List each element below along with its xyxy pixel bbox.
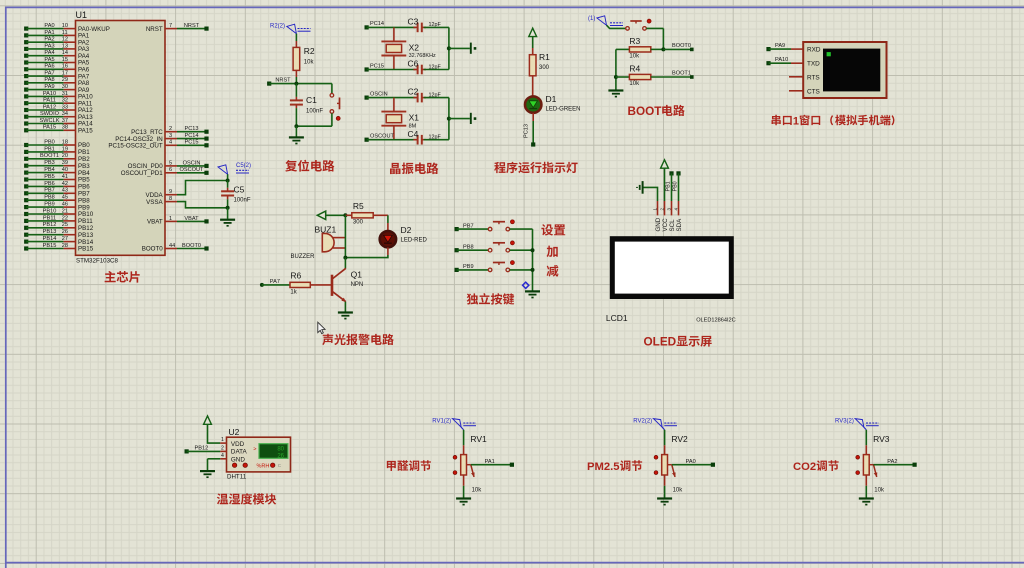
- svg-text:X1: X1: [409, 113, 420, 123]
- crystal X1 8M: [381, 98, 419, 140]
- svg-text:10k: 10k: [874, 488, 885, 494]
- label 温湿度模块: [217, 493, 276, 504]
- svg-text:2: 2: [169, 126, 172, 132]
- svg-text:PB11: PB11: [43, 215, 56, 221]
- potentiometer RV1 10k: [461, 430, 487, 494]
- wire PC15 to C6: [367, 69, 416, 71]
- net PB8 terminal + wire: [455, 244, 489, 252]
- svg-text:8: 8: [169, 196, 172, 202]
- U1 label 主芯片: [105, 271, 140, 283]
- U1 right pin BOOT0 (44) net BOOT0: [142, 243, 209, 253]
- virtual terminal body: [803, 42, 886, 98]
- U1 left pin PB2 (20) wire net BOOT1: [24, 153, 90, 163]
- svg-text:R3: R3: [629, 36, 640, 46]
- svg-text:PA0: PA0: [686, 459, 696, 465]
- label OLED显示屏: [644, 336, 712, 349]
- svg-text:PA8: PA8: [44, 77, 54, 83]
- keys bus rail: [531, 229, 535, 290]
- wire button bottom to C1 bottom: [294, 124, 332, 128]
- power flag RV3(2): [835, 419, 879, 430]
- wire emitter to ground: [344, 302, 346, 312]
- svg-text:BUZZER: BUZZER: [291, 254, 316, 260]
- capacitor C1 100nF: [290, 84, 323, 127]
- junction NRST/R2/C1: [294, 82, 298, 86]
- U1 left pin PB5 (41) wire net PB5: [24, 174, 90, 184]
- svg-text:GND: GND: [655, 217, 662, 231]
- U1 right pin NRST (7) net NRST: [146, 23, 209, 33]
- svg-text:PB9: PB9: [463, 264, 474, 270]
- svg-text:LED-RED: LED-RED: [401, 238, 428, 244]
- svg-text:PA0: PA0: [44, 23, 54, 29]
- svg-text:10: 10: [62, 23, 68, 29]
- svg-text:Q1: Q1: [351, 270, 363, 280]
- svg-text:PA10: PA10: [43, 91, 56, 97]
- svg-text:3: 3: [169, 133, 172, 139]
- svg-text:(1): (1): [588, 16, 595, 22]
- svg-text:41: 41: [62, 174, 68, 180]
- svg-text:21: 21: [62, 208, 68, 214]
- svg-text:PA10: PA10: [775, 57, 788, 63]
- junction BOOT0: [661, 47, 665, 51]
- U1 left pin PA13 (34) wire net SWDIO: [24, 111, 93, 121]
- svg-text:OSCOUT: OSCOUT: [370, 134, 395, 140]
- svg-text:12: 12: [62, 37, 68, 43]
- capacitor C5 100nF: [221, 181, 251, 208]
- RTS pin stub: [789, 76, 803, 78]
- svg-text:300: 300: [539, 65, 550, 71]
- svg-text:OSCIN: OSCIN: [370, 91, 388, 97]
- terminal screen: [823, 49, 880, 92]
- push button 减: [488, 261, 514, 272]
- wire RV2 to ground: [664, 486, 666, 498]
- svg-text:PA2: PA2: [887, 459, 897, 465]
- wire C5 bottom to ground: [227, 208, 229, 219]
- net PA1 wire from RV1 wiper: [471, 459, 514, 467]
- U1 left pin PB3 (39) wire net PB3: [24, 160, 90, 170]
- net PB0 terminal + SDA wire: [673, 171, 681, 201]
- svg-text:39: 39: [62, 160, 68, 166]
- net BOOT0 wire + terminal: [663, 43, 693, 51]
- svg-text:BOOT1: BOOT1: [672, 70, 691, 76]
- svg-text:2: 2: [221, 446, 224, 452]
- svg-text:NRST: NRST: [275, 77, 291, 83]
- svg-text:PB3: PB3: [44, 160, 55, 166]
- svg-text:PB14: PB14: [43, 236, 57, 242]
- potentiometer RV2 10k: [662, 430, 688, 494]
- U1 left pin PA8 (29) wire net PA8: [24, 77, 90, 87]
- svg-text:38: 38: [62, 125, 68, 131]
- U1 left pin PA6 (16) wire net PA6: [24, 64, 90, 74]
- svg-text:PC15: PC15: [185, 140, 199, 146]
- ground (RV2): [657, 499, 672, 505]
- svg-text:STM32F103C8: STM32F103C8: [76, 258, 119, 265]
- svg-text:1: 1: [793, 115, 799, 127]
- svg-text:PB15: PB15: [43, 243, 57, 249]
- wire GND down: [207, 459, 209, 470]
- U1 left pin PB1 (19) wire net PB1: [24, 146, 90, 156]
- U1 left pin PB7 (43) wire net PB7: [24, 188, 90, 198]
- svg-text:37: 37: [62, 118, 68, 124]
- node at C5 top: [226, 179, 230, 183]
- svg-text:PB5: PB5: [44, 174, 55, 180]
- wire PC14 to C3/X2: [367, 26, 416, 28]
- svg-text:PB7: PB7: [463, 223, 474, 229]
- power flag (1): [588, 16, 623, 26]
- wire button to BOOT0 node: [646, 28, 663, 49]
- svg-text:PA3: PA3: [44, 43, 54, 49]
- svg-text:LED-GREEN: LED-GREEN: [546, 107, 581, 113]
- U1 left pin PA10 (31) wire net PA10: [24, 91, 93, 101]
- svg-text:NRST: NRST: [184, 23, 200, 29]
- net OSCIN terminal: [365, 91, 388, 99]
- label OLED128642C: [696, 318, 736, 324]
- svg-text:U2: U2: [229, 427, 240, 437]
- svg-text:10k: 10k: [629, 81, 640, 87]
- reset push button: [330, 84, 340, 127]
- svg-text:%RH: %RH: [257, 463, 270, 469]
- U1 left pin PB0 (18) wire net PB0: [24, 139, 90, 149]
- U2 pin GND (4): [208, 453, 246, 464]
- svg-text:3: 3: [666, 208, 671, 211]
- wire GND to side ground: [643, 187, 658, 201]
- svg-text:C3: C3: [408, 17, 419, 27]
- right rail X2 + junction: [447, 27, 470, 69]
- svg-text:29: 29: [62, 77, 68, 83]
- ground (reset circuit): [289, 137, 304, 143]
- U1 left pin PB8 (45) wire net PB8: [24, 195, 90, 205]
- svg-text:PC14: PC14: [185, 133, 199, 139]
- resistor R4 10k: [616, 64, 691, 88]
- svg-text:46: 46: [62, 202, 68, 208]
- net PB7 terminal + wire: [455, 223, 489, 231]
- U1 right pin PC13_RTC (2) net PC13: [131, 126, 208, 136]
- label 复位电路: [285, 160, 334, 172]
- U1 left pin PA3 (13) wire net PA3: [24, 43, 90, 53]
- LED D1 LED-GREEN: [525, 94, 581, 113]
- power flag RV1(2): [432, 419, 476, 430]
- label 加: [547, 246, 558, 257]
- svg-text:PB4: PB4: [44, 167, 55, 173]
- net PA2 wire from RV3 wiper: [874, 459, 917, 467]
- U1 left pin PA4 (14) wire net PA4: [24, 50, 90, 60]
- svg-text:32: 32: [62, 98, 68, 104]
- ground (BOOT): [608, 91, 623, 97]
- svg-text:PB0: PB0: [673, 181, 679, 191]
- wire VSSA to C5 bottom: [177, 202, 228, 208]
- svg-text:PA11: PA11: [43, 98, 56, 104]
- svg-text:34: 34: [62, 111, 68, 117]
- bar terminal (X1 rail): [471, 113, 477, 124]
- svg-text:>: >: [253, 447, 256, 453]
- wire D2 to node B: [345, 247, 388, 257]
- power arrow (OLED VCC): [661, 160, 669, 168]
- svg-text:14: 14: [62, 50, 68, 56]
- svg-text:42: 42: [62, 181, 68, 187]
- svg-text:RV3(2): RV3(2): [835, 419, 854, 425]
- svg-text:45: 45: [62, 195, 68, 201]
- svg-text:VBAT: VBAT: [147, 219, 163, 226]
- U1 left pin PB15 (28) wire net PB15: [24, 243, 94, 253]
- ground below C5: [220, 220, 235, 226]
- wire RV3 to ground: [865, 486, 867, 498]
- svg-text:PA1: PA1: [485, 459, 495, 465]
- wire R1 to D1: [532, 82, 534, 96]
- wire D1 to PC13 terminal: [524, 113, 534, 145]
- svg-text:18: 18: [62, 139, 68, 145]
- svg-text:PA5: PA5: [44, 57, 54, 63]
- U1 left pin PA1 (11) wire net PA1: [24, 30, 90, 40]
- push button 设置: [488, 220, 514, 231]
- wire OSCOUT to C4: [367, 139, 416, 141]
- U1 left pin PA5 (15) wire net PA5: [24, 57, 90, 67]
- svg-text:RV1: RV1: [470, 434, 487, 444]
- svg-text:1: 1: [652, 208, 657, 211]
- svg-text:R5: R5: [353, 201, 364, 211]
- U1 left pin PA7 (17) wire net PA7: [24, 71, 90, 81]
- svg-text:10k: 10k: [304, 60, 315, 66]
- svg-text:D2: D2: [401, 225, 412, 235]
- U1 left pin PB11 (22) wire net PB11: [24, 215, 93, 225]
- svg-text:4: 4: [169, 140, 172, 146]
- svg-text:C5: C5: [234, 185, 245, 195]
- svg-text:7: 7: [169, 23, 172, 29]
- capacitor C4 12pF: [408, 129, 442, 145]
- svg-text:CO2: CO2: [793, 461, 816, 473]
- power arrow left (alarm): [317, 211, 325, 219]
- junction node A (R5/BUZ1): [343, 213, 347, 217]
- wire C2 to right rail: [424, 97, 449, 99]
- svg-text:PB12: PB12: [195, 446, 209, 452]
- U1 left pin PA11 (32) wire net PA11: [24, 98, 93, 108]
- svg-text:PB8: PB8: [44, 195, 55, 201]
- buzzer BUZ1: [291, 224, 346, 260]
- label 减: [547, 265, 559, 277]
- U1 right pin PC15-OSC32_OUT (4) net PC15: [108, 140, 208, 150]
- svg-text:PA4: PA4: [44, 50, 54, 56]
- svg-text:VBAT: VBAT: [184, 216, 199, 222]
- resistor R2 10k: [293, 34, 315, 77]
- U1 left pin PA0-WKUP (10) wire net PA0: [24, 23, 110, 33]
- net PA0 wire from RV2 wiper: [672, 459, 715, 467]
- label 独立按键: [467, 293, 514, 305]
- RV3 up/down buttons: [856, 455, 860, 474]
- wire VCC: [664, 169, 666, 201]
- svg-text:PA15: PA15: [43, 125, 56, 131]
- svg-text:PC13: PC13: [524, 124, 530, 138]
- svg-text:10k: 10k: [472, 488, 483, 494]
- svg-text:2: 2: [659, 208, 664, 211]
- power flag C5(2): [218, 163, 251, 181]
- wire C4 to right rail: [424, 139, 449, 141]
- CTS pin stub: [789, 90, 803, 92]
- wire OSCIN to C2: [367, 97, 416, 99]
- power arrow (DHT11): [204, 416, 212, 424]
- svg-text:PM2.5: PM2.5: [587, 461, 620, 473]
- power flag RV2(2): [633, 419, 677, 430]
- svg-text:31: 31: [62, 91, 68, 97]
- U1 right pin VDDA (9): [145, 189, 177, 199]
- svg-text:RV2: RV2: [671, 434, 688, 444]
- junction node B (collector): [343, 256, 347, 260]
- power flag R2(2): [270, 24, 311, 34]
- svg-text:22: 22: [62, 215, 68, 221]
- wire C6 to right rail: [424, 69, 449, 71]
- svg-text:1k: 1k: [290, 290, 297, 296]
- ground (alarm): [338, 313, 353, 319]
- svg-text:BUZ1: BUZ1: [315, 224, 337, 234]
- wire button PB8 to bus: [510, 249, 533, 251]
- net PC15 terminal: [365, 63, 385, 71]
- svg-text:PB13: PB13: [43, 229, 57, 235]
- svg-text:10k: 10k: [629, 54, 640, 60]
- svg-text:PA15: PA15: [78, 128, 93, 135]
- net OSCOUT terminal: [365, 134, 395, 142]
- svg-text:11: 11: [62, 30, 68, 36]
- svg-text:BOOT0: BOOT0: [182, 243, 201, 249]
- U1 left pin PA14 (37) wire net SWCLK: [24, 118, 93, 128]
- svg-text:C5(2): C5(2): [236, 163, 251, 169]
- label RV2 adjust: [587, 460, 642, 473]
- net PB9 terminal + wire: [455, 264, 489, 272]
- svg-text:BOOT1: BOOT1: [40, 153, 59, 159]
- svg-text:80: 80: [277, 447, 284, 453]
- svg-text:PB0: PB0: [44, 139, 55, 145]
- wire button PB7 to bus: [510, 228, 533, 230]
- svg-text:RV3: RV3: [873, 434, 890, 444]
- resistor R3 10k: [616, 36, 664, 60]
- svg-text:LCD1: LCD1: [606, 313, 628, 323]
- svg-text:44: 44: [169, 243, 175, 249]
- svg-text:33: 33: [62, 104, 68, 110]
- net PC13 terminal dot: [531, 142, 535, 146]
- svg-text:4: 4: [673, 208, 678, 211]
- svg-text:15: 15: [62, 57, 68, 63]
- svg-text:10k: 10k: [673, 488, 684, 494]
- U1 left pin PB9 (46) wire net PB9: [24, 202, 90, 212]
- svg-text:PC14: PC14: [370, 21, 384, 27]
- wire C3 to right rail: [424, 26, 449, 28]
- mouse cursor: [318, 322, 325, 333]
- push button 加: [488, 241, 514, 252]
- svg-text:19: 19: [62, 146, 68, 152]
- RV2 up/down buttons: [654, 455, 658, 474]
- right rail X1 + junction: [447, 98, 470, 140]
- svg-text:BOOT: BOOT: [628, 105, 663, 118]
- U1 left pin PA2 (12) wire net PA2: [24, 37, 90, 47]
- svg-text:PB12: PB12: [43, 222, 57, 228]
- svg-text:43: 43: [62, 188, 68, 194]
- svg-text:16: 16: [62, 64, 68, 70]
- svg-text:PA2: PA2: [44, 37, 54, 43]
- DHT11 green display: [253, 443, 288, 460]
- label 声光报警电路: [322, 334, 394, 345]
- svg-text:PA7: PA7: [44, 71, 54, 77]
- svg-text:PB10: PB10: [43, 208, 57, 214]
- svg-text:OSCIN: OSCIN: [183, 160, 201, 166]
- RV1 up/down buttons: [453, 455, 457, 474]
- svg-text:NPN: NPN: [351, 282, 364, 288]
- label BOOT电路: [628, 105, 685, 118]
- svg-text:PB7: PB7: [44, 188, 55, 194]
- svg-text:PC13: PC13: [185, 126, 199, 132]
- label 设置: [541, 224, 565, 236]
- resistor R1 300: [529, 37, 550, 82]
- svg-text:100nF: 100nF: [234, 198, 251, 204]
- label 串口1窗口（模拟手机端）: [772, 115, 894, 128]
- svg-text:OSCOUT_PD1: OSCOUT_PD1: [121, 170, 164, 177]
- svg-text:SWCLK: SWCLK: [40, 118, 60, 124]
- humidity sensor U2 DHT11 body: [227, 427, 291, 481]
- bar terminal (X2 rail): [471, 43, 477, 54]
- power arrow (indicator): [529, 28, 537, 36]
- svg-text:PB8: PB8: [463, 244, 474, 250]
- svg-text:R2: R2: [304, 46, 315, 56]
- svg-text:PB1: PB1: [666, 181, 672, 191]
- svg-text:6: 6: [169, 167, 172, 173]
- svg-text:SWDIO: SWDIO: [40, 111, 60, 117]
- U1 left pin PA9 (30) wire net PA9: [24, 84, 90, 94]
- microcontroller U1 STM32F103C8 body: [76, 10, 166, 264]
- OLED display LCD1 body: [610, 236, 734, 299]
- label 程序运行指示灯: [494, 162, 577, 174]
- wire power to VDD: [208, 425, 221, 443]
- capacitor C6 12pF: [408, 59, 442, 75]
- U1 left pin PB12 (25) wire net PB12: [24, 222, 94, 232]
- wire button PB9 to bus: [510, 269, 533, 271]
- svg-text:OLED: OLED: [644, 336, 677, 349]
- U1 right pin OSCIN_PD0 (5) net OSCIN: [128, 160, 209, 170]
- svg-text:PB1: PB1: [44, 146, 55, 152]
- resistor R5 300: [345, 201, 388, 226]
- crystal X2 32.768KHz: [381, 27, 436, 69]
- svg-text:SDA: SDA: [676, 218, 683, 232]
- U1 left pin PA15 (38) wire net PA15: [24, 125, 93, 135]
- svg-text:R2(2): R2(2): [270, 24, 285, 30]
- svg-text:R4: R4: [629, 64, 640, 74]
- svg-text:PA12: PA12: [43, 104, 56, 110]
- wire to ground (reset): [295, 126, 297, 136]
- wire RV1 to ground: [463, 486, 465, 498]
- svg-text:RV2(2): RV2(2): [633, 419, 652, 425]
- svg-text:RXD: RXD: [807, 47, 821, 54]
- svg-text:1: 1: [169, 216, 172, 222]
- svg-text:PA6: PA6: [44, 64, 54, 70]
- svg-text:DATA: DATA: [231, 449, 248, 456]
- net PA10 wire: [766, 57, 803, 65]
- svg-text:9: 9: [169, 189, 172, 195]
- svg-text:26: 26: [277, 454, 284, 460]
- side ground (OLED): [637, 181, 643, 194]
- net PA7 terminal: [260, 279, 280, 287]
- wire R2 to NRST node: [295, 77, 297, 84]
- svg-text:NRST: NRST: [146, 26, 163, 33]
- U1 left pin PB14 (27) wire net PB14: [24, 236, 94, 246]
- svg-text:D1: D1: [546, 94, 557, 104]
- label RV3 adjust: [793, 460, 839, 473]
- label 晶振电路: [390, 162, 438, 174]
- U1 right pin OSCOUT_PD1 (6) net OSCOUT: [121, 167, 209, 177]
- svg-text:BOOT0: BOOT0: [672, 43, 691, 49]
- U1 left pin PB10 (21) wire net PB10: [24, 208, 94, 218]
- transistor Q1 NPN: [332, 258, 363, 302]
- svg-text:VDD: VDD: [231, 441, 245, 448]
- svg-text:OSCOUT: OSCOUT: [180, 167, 205, 173]
- svg-text:RV1(2): RV1(2): [432, 419, 451, 425]
- svg-text:VCC: VCC: [662, 218, 669, 232]
- svg-text:TXD: TXD: [807, 60, 820, 67]
- svg-text:R6: R6: [290, 271, 301, 281]
- U2 pin DATA (2) net PB12: [185, 446, 248, 456]
